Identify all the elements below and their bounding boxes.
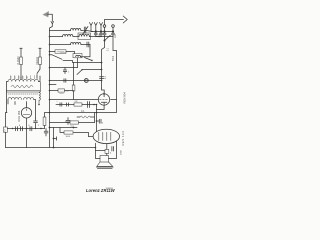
- svg-text:150: 150: [18, 76, 20, 79]
- node grid bus: [104, 40, 106, 42]
- triode V1 grid dashes: [100, 99, 108, 101]
- lamp electrodes: [86, 79, 87, 81]
- speaker LS1 magnet box: [100, 156, 109, 163]
- node dots left bus: [49, 36, 51, 114]
- switch S4 arm: [85, 58, 93, 61]
- wire bus x73 lower: [73, 91, 75, 100]
- resistor R1 label marks: [57, 51, 64, 53]
- svg-text:0,1MΩ: 0,1MΩ: [16, 57, 20, 65]
- wire row y89: [50, 90, 74, 92]
- svg-text:220: 220: [22, 76, 24, 79]
- node choke: [38, 104, 40, 106]
- capacitor C7: [64, 79, 66, 82]
- transformer T1 screen dashed: [8, 93, 38, 95]
- node rail right: [95, 147, 97, 149]
- wire row y113: [50, 112, 97, 114]
- bottom rail wire: [6, 147, 96, 149]
- resistor R4 label: [60, 92, 64, 94]
- fuse box F1: [4, 127, 8, 132]
- capacitor C14 inline: [60, 103, 62, 107]
- node V1 cathode bus: [96, 104, 98, 122]
- capacitor C3: [94, 32, 97, 37]
- capacitor C4: [100, 32, 103, 37]
- resistor R11 box: [64, 131, 73, 134]
- capacitor C20 bars: [63, 68, 66, 74]
- capacitor C8: [100, 77, 104, 79]
- resistor R2 vertical w leads: [20, 48, 22, 78]
- wire row y104.5: [56, 104, 97, 106]
- capacitor C13 stub: [54, 137, 57, 140]
- svg-text:0: 0: [30, 78, 32, 79]
- capacitor C5: [103, 32, 106, 37]
- capacitor C17 bars: [112, 147, 114, 152]
- wire R9 leads: [77, 113, 95, 123]
- wire row y65.6: [50, 67, 78, 69]
- wire row y122.5: [50, 122, 95, 124]
- triode V1 grid cap dot: [103, 93, 105, 95]
- svg-text:Ω: Ω: [4, 131, 6, 133]
- wire T1 right leg: [34, 76, 40, 118]
- wire R12 left: [96, 150, 106, 152]
- svg-text:2Ω: 2Ω: [75, 101, 78, 103]
- choke L6 vertical: [39, 82, 41, 105]
- wire row4: [50, 51, 56, 53]
- wire row4c: [81, 48, 91, 57]
- wire caps bottom bar: [96, 36, 113, 38]
- wire caps row: [7, 128, 44, 130]
- wire row2b: [73, 36, 101, 38]
- wire bus x53: [53, 128, 55, 148]
- wire V1 right loop: [97, 100, 117, 113]
- capacitor C10 bars: [21, 127, 23, 131]
- wire R12 to speaker: [106, 153, 108, 155]
- wire drop to bus: [102, 37, 105, 89]
- wire V3 top connections: [109, 141, 117, 159]
- node row75 right: [101, 80, 103, 82]
- resistor R5 vertical: [72, 85, 75, 91]
- coil L2: [63, 35, 73, 37]
- wire V2 anode top: [26, 104, 28, 108]
- speaker LS1 base: [96, 167, 113, 168]
- resistor R7 vertical leads: [45, 113, 50, 129]
- antenna connector Y: [51, 22, 54, 24]
- svg-text:REN 904: REN 904: [122, 92, 126, 104]
- speaker LS1 cone: [97, 162, 113, 166]
- resistor R1 box: [55, 50, 66, 53]
- svg-text:110: 110: [10, 76, 12, 79]
- triode V1 circle: [98, 94, 109, 105]
- resistor R7 box: [43, 117, 46, 126]
- transformer T1 tap ticks: [11, 76, 35, 80]
- svg-text:125: 125: [14, 76, 16, 79]
- capacitor C18: [97, 119, 102, 123]
- tiny sideways value labels: [4, 33, 127, 193]
- wire bus x96 down: [96, 105, 98, 132]
- wire V1 top: [102, 88, 105, 93]
- wire speaker left loop: [96, 143, 101, 158]
- resistor R10 box: [70, 121, 79, 124]
- resistor R3 vertical w leads: [39, 48, 41, 69]
- potentiometer arrowhead: [81, 69, 83, 71]
- wire row3: [50, 44, 71, 46]
- node switch line: [91, 60, 92, 61]
- wire row4b: [66, 52, 75, 54]
- capacitor C9 bars: [16, 127, 18, 131]
- node row104: [93, 104, 95, 106]
- wire antenna lead: [48, 14, 53, 21]
- capacitor C15 bars: [88, 102, 90, 108]
- coil L4: [71, 43, 81, 45]
- wire T1 left leg: [7, 82, 9, 113]
- terminal circle P2: [112, 25, 115, 28]
- wire cap C6 drop: [113, 37, 117, 100]
- resistor R4 box: [58, 89, 65, 92]
- wire row y127.7: [50, 127, 78, 129]
- switch S3 mains: [37, 69, 40, 79]
- triode V1 anode bar: [101, 93, 107, 105]
- resistor R9 zigzag: [80, 116, 90, 118]
- capacitor C6: [112, 32, 115, 37]
- wire R11 leads: [60, 128, 89, 137]
- IF can shield box: [78, 33, 91, 40]
- transformer T1 primary winding: [8, 79, 38, 81]
- switch box: [73, 54, 82, 58]
- coil L5 small: [76, 55, 81, 56]
- antenna A1 arrow: [43, 11, 49, 17]
- pentode V3 pins: [89, 137, 107, 150]
- wire row y54 label stub: [60, 52, 66, 54]
- wire row2: [50, 36, 63, 38]
- junction dots terminal bar: [95, 30, 114, 32]
- switch S1 row: [50, 54, 53, 56]
- resistor R12 box under V3: [105, 149, 109, 153]
- transformer T1 secondary winding b: [24, 98, 34, 100]
- transformer T1 tap numbers: [10, 76, 32, 79]
- svg-text:1930/31: 1930/31: [106, 188, 114, 190]
- rectifier V2 circle: [21, 108, 31, 118]
- capacitor C11 bars: [30, 127, 32, 131]
- terminal Y2: [100, 23, 103, 32]
- wire terminals to bar: [105, 27, 114, 31]
- coil L1: [71, 29, 81, 31]
- svg-text:RES 164: RES 164: [121, 131, 125, 146]
- node caps row: [12, 128, 42, 130]
- resistor R2 box: [20, 57, 23, 65]
- wire row1: [50, 30, 71, 32]
- svg-text:0,1: 0,1: [81, 110, 85, 113]
- pentode V3 electrodes: [99, 132, 111, 140]
- potentiometer arrow: [77, 70, 82, 75]
- pentode V3 envelope: [93, 129, 119, 143]
- wire T1 left leg down: [6, 113, 8, 128]
- wire row y98.2: [50, 99, 99, 101]
- wire row y75.4: [50, 80, 102, 82]
- wire x77 drop: [77, 58, 79, 68]
- wire pickup bracket: [105, 20, 124, 25]
- lamp circle: [84, 79, 88, 83]
- capacitor C14b inline: [67, 103, 69, 106]
- terminal Y1: [94, 23, 97, 32]
- wire row y60: [63, 61, 102, 63]
- switch S1 arm: [52, 55, 62, 60]
- coil L3: [79, 35, 89, 37]
- resistor R6 zigzag heater: [11, 85, 33, 88]
- svg-text:NetzΩ: NetzΩ: [35, 57, 39, 65]
- wire terminal bar: [91, 31, 113, 33]
- wire row y81.8: [50, 84, 57, 86]
- electrolytic C19: [34, 118, 38, 128]
- transformer T1 secondary winding a: [8, 98, 22, 100]
- trimmer capacitor C1: [83, 27, 89, 35]
- node x73: [73, 127, 75, 129]
- arrow chevron right: [123, 16, 127, 23]
- wire V1 cathode: [97, 105, 105, 109]
- node bus x53: [49, 127, 55, 149]
- wire V2 bottom: [26, 118, 28, 148]
- wire T1 taps: [15, 77, 27, 105]
- wire row3b: [81, 44, 90, 46]
- capacitor C12: [44, 129, 48, 137]
- terminal Y0: [90, 23, 93, 32]
- resistor R8 box: [74, 103, 82, 106]
- svg-text:240: 240: [26, 76, 28, 79]
- resistor R3 box: [39, 57, 42, 65]
- capacitor C16: [66, 118, 70, 125]
- terminal circle P1: [103, 25, 106, 28]
- wire antenna to bus: [50, 24, 53, 31]
- transformer T1 core lines: [7, 91, 41, 93]
- trimmer capacitor C2: [87, 42, 90, 48]
- switch S2 arm: [105, 35, 111, 40]
- wire row1b: [81, 31, 93, 32]
- wire bus left x49: [49, 31, 51, 148]
- wire F1 to rail: [5, 132, 7, 147]
- rectifier V2 cathode bar: [23, 109, 29, 115]
- svg-text:5000: 5000: [113, 55, 115, 61]
- wire bus x73: [73, 63, 75, 86]
- wire av line: [83, 69, 102, 71]
- node row65 right: [101, 62, 103, 64]
- node av line: [101, 69, 103, 71]
- svg-text:RGN 354: RGN 354: [17, 110, 21, 121]
